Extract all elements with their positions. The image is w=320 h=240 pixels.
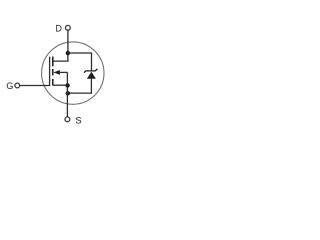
- gate electrode line G1: [20, 57, 50, 86]
- terminal G open circle: [15, 83, 20, 88]
- N-channel MOSFET schematic symbol with body zener diode: [0, 0, 150, 149]
- svg-text:S: S: [75, 116, 81, 127]
- channel bar top (drain region): [52, 57, 54, 67]
- channel bar bottom (source region): [52, 79, 54, 86]
- wire diode branch bottom: down then left to source line: [67, 79, 91, 93]
- wire drain lead: terminal down, corner left to channel top bar: [53, 30, 68, 61]
- diode D1 cathode bar (zener style): [84, 69, 98, 73]
- label G: [6, 81, 13, 91]
- svg-text:D: D: [55, 24, 62, 34]
- transistor body circle Q1: [42, 42, 104, 104]
- wire source vertical: body corner down to S terminal: [66, 72, 68, 117]
- node junction dot drain-diode: [66, 51, 70, 55]
- channel bar middle (body region): [52, 69, 54, 75]
- body arrow (points left into channel): [53, 70, 60, 75]
- label S: [75, 116, 81, 127]
- node junction dot source-channel: [65, 83, 69, 87]
- label D: [55, 24, 62, 34]
- diode D1 anode triangle: [87, 72, 96, 79]
- node junction dot source-diode: [66, 91, 70, 95]
- wire diode branch top: right then down to cathode: [68, 53, 92, 71]
- wire source connection horizontal at channel bottom: [53, 84, 68, 86]
- terminal D open circle: [66, 25, 71, 30]
- terminal S open circle: [65, 117, 70, 122]
- wire body connection horizontal from arrow to source line: [60, 71, 68, 73]
- svg-text:G: G: [6, 81, 13, 91]
